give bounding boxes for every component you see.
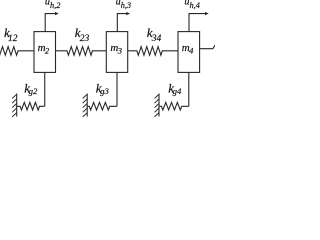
wire below m2 bbox=[44, 72, 46, 106]
svg-text:h,2: h,2 bbox=[50, 1, 60, 10]
arrow u_h2 bbox=[45, 14, 55, 32]
svg-text:23: 23 bbox=[80, 34, 90, 44]
spring k45 cut at right edge bbox=[200, 45, 216, 49]
mass m4 box bbox=[178, 32, 200, 73]
spring k12 bbox=[0, 47, 34, 56]
svg-text:g3: g3 bbox=[100, 86, 109, 96]
svg-text:34: 34 bbox=[151, 34, 162, 44]
svg-text:h,4: h,4 bbox=[190, 1, 200, 10]
arrow u_h3 bbox=[117, 14, 126, 32]
svg-text:g2: g2 bbox=[29, 86, 38, 96]
spring k34 bbox=[128, 47, 178, 56]
spring kg3 bbox=[87, 102, 117, 110]
wire below m3 bbox=[116, 72, 118, 106]
svg-text:h,3: h,3 bbox=[121, 1, 131, 10]
spring kg2 bbox=[17, 102, 45, 110]
svg-text:3: 3 bbox=[117, 46, 122, 56]
svg-text:4: 4 bbox=[189, 46, 194, 56]
spring kg4 bbox=[159, 102, 189, 110]
mass m2 box bbox=[34, 32, 56, 73]
spring k23 bbox=[56, 47, 107, 56]
wall anchor g3 bbox=[86, 94, 88, 117]
svg-text:2: 2 bbox=[45, 46, 50, 56]
wall anchor g4 bbox=[158, 94, 160, 117]
wire below m4 bbox=[188, 72, 190, 106]
svg-text:g4: g4 bbox=[173, 86, 182, 96]
arrow u_h4 bbox=[189, 14, 205, 32]
svg-text:12: 12 bbox=[8, 34, 18, 44]
mass m3 box bbox=[106, 32, 127, 73]
wall anchor g2 bbox=[16, 94, 18, 117]
